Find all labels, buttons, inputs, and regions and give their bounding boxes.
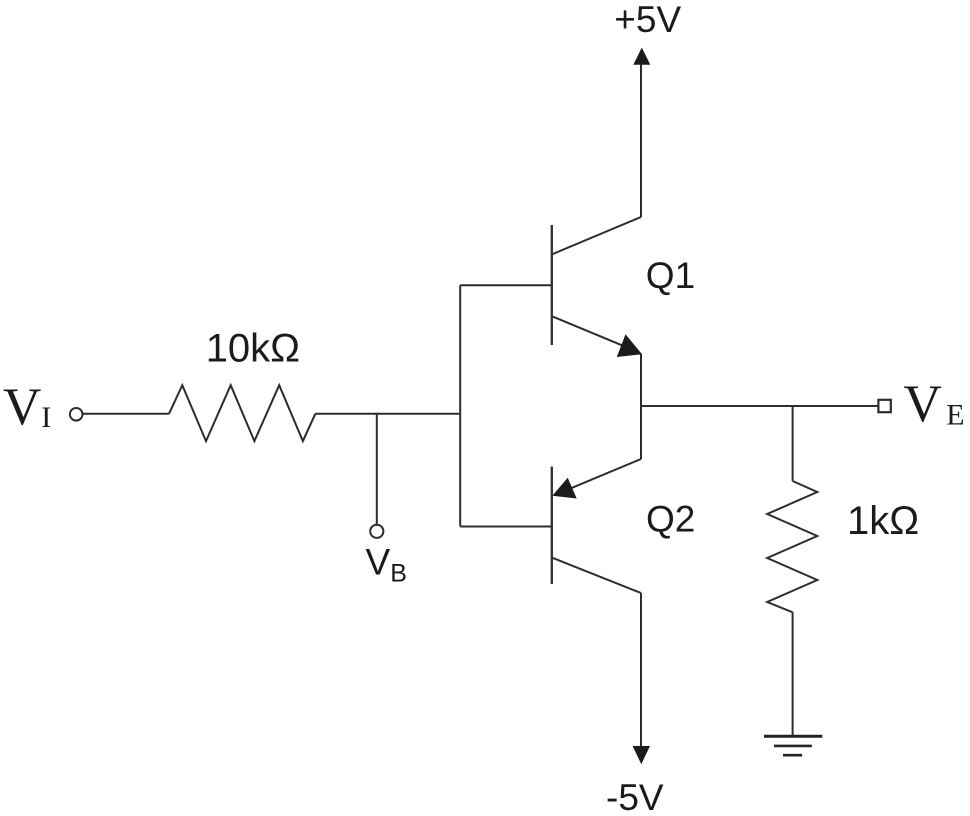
svg-text:Q1: Q1 xyxy=(646,255,695,296)
resistor R2 1k zigzag xyxy=(767,481,817,612)
terminal VE (square) xyxy=(878,400,890,412)
transistor Q2 emitter diagonal xyxy=(563,459,641,492)
wire input left xyxy=(83,413,169,415)
transistor Q2 collector diagonal xyxy=(552,558,641,593)
terminal VI (input circle) xyxy=(70,408,83,421)
wire output to resistor 1k xyxy=(792,406,794,481)
transistor Q1 base bar xyxy=(551,225,553,345)
wire collector Q1 to +5V xyxy=(640,64,642,217)
arrow Q1 emitter (NPN, pointing out) xyxy=(617,334,642,357)
wire VB branch xyxy=(376,414,378,525)
svg-text:1kΩ: 1kΩ xyxy=(847,499,919,543)
svg-text:VB: VB xyxy=(366,542,407,588)
terminal VB (circle) xyxy=(370,525,383,538)
wire output node to VE xyxy=(641,405,878,407)
wire collector Q2 to -5V xyxy=(640,593,642,747)
wire resistor to base node xyxy=(315,413,460,415)
svg-text:VI: VI xyxy=(3,378,51,436)
svg-text:Q2: Q2 xyxy=(646,499,695,540)
wire Q1 emitter vertical xyxy=(640,354,642,460)
arrow Q2 emitter (PNP, pointing in) xyxy=(552,478,576,499)
svg-text:+5V: +5V xyxy=(614,0,681,40)
svg-text:VE: VE xyxy=(904,375,965,433)
svg-text:10kΩ: 10kΩ xyxy=(206,326,300,370)
transistor Q1 emitter diagonal xyxy=(552,316,640,353)
transistor Q2 base bar xyxy=(551,467,553,585)
wire base Q2 xyxy=(460,526,552,528)
arrow +5V supply xyxy=(633,48,650,65)
wire resistor 1k to ground xyxy=(792,612,794,736)
transistor Q1 collector diagonal xyxy=(552,217,641,254)
svg-text:-5V: -5V xyxy=(606,777,664,816)
resistor R1 10k zigzag xyxy=(169,385,315,441)
wire base Q1 xyxy=(460,284,552,286)
node base vertical wire xyxy=(459,285,461,526)
ground symbol xyxy=(764,736,822,755)
arrow -5V supply xyxy=(633,746,650,764)
